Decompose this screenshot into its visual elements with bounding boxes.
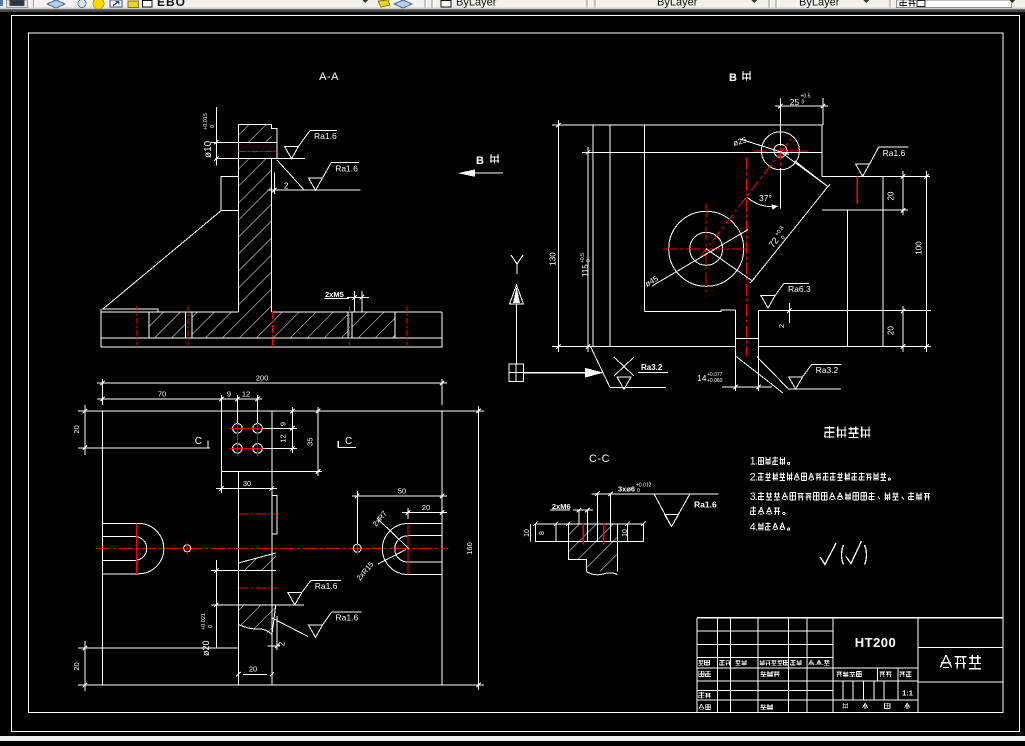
C-C M6 red holes <box>582 522 584 544</box>
svg-text:10: 10 <box>622 529 629 537</box>
linetype dropdown tick <box>751 0 757 3</box>
plan dim 20 slot <box>407 508 409 519</box>
B view dia45 label <box>652 230 748 286</box>
toolbar layers icon 2 <box>394 0 412 8</box>
svg-text:20: 20 <box>249 665 257 674</box>
B view red cross big circle <box>663 248 748 250</box>
svg-text:10: 10 <box>524 529 531 537</box>
plan dim 20 bottom column <box>243 673 267 675</box>
svg-text:+0.021: +0.021 <box>201 613 207 630</box>
title block outer lines <box>697 617 1003 619</box>
A-A column outline <box>239 125 277 312</box>
svg-text:C: C <box>345 436 352 447</box>
tech req check marks <box>820 543 836 565</box>
svg-text:20: 20 <box>72 662 81 670</box>
B view step dim 2 <box>788 303 790 323</box>
plan dims 70 9 12 top <box>220 395 222 411</box>
B view dim 115 <box>582 151 610 153</box>
layer color swatch <box>143 1 153 8</box>
toolbar separator 1 <box>33 0 35 8</box>
svg-text:.: . <box>755 456 758 468</box>
svg-text:Ra1.6: Ra1.6 <box>694 500 717 510</box>
B view dim 20 block <box>883 175 908 177</box>
C-C step wavy bottom <box>587 572 618 575</box>
A-A gusset diagonal <box>103 211 221 309</box>
svg-text:160: 160 <box>465 542 474 555</box>
B view dim 72 extension from small circle <box>780 151 828 186</box>
toolbar icon yellow fragment <box>378 0 390 7</box>
layer name text <box>157 0 186 9</box>
svg-text:70: 70 <box>158 390 166 399</box>
plan pad holes <box>233 424 243 434</box>
svg-text:B: B <box>476 155 484 167</box>
plan right slot inner arc <box>395 536 408 562</box>
svg-text:Ra1.6: Ra1.6 <box>314 131 337 141</box>
svg-text:Ra3.2: Ra3.2 <box>816 365 839 375</box>
svg-text:+0.060: +0.060 <box>707 378 723 384</box>
svg-text:2xM5: 2xM5 <box>325 290 344 299</box>
B view chute red centerline <box>745 157 747 356</box>
plan left locator dot <box>184 545 191 552</box>
svg-text:Ra3.2: Ra3.2 <box>641 363 663 372</box>
title block left grid rows <box>697 630 833 632</box>
svg-text:ByLayer: ByLayer <box>799 0 840 9</box>
title block header row labels <box>699 660 710 665</box>
lineweight dropdown tick <box>863 0 869 3</box>
svg-text:50: 50 <box>398 486 406 495</box>
svg-text:2: 2 <box>777 324 786 328</box>
plan dim 20 top-left <box>78 410 103 412</box>
B view dim 72 text <box>767 225 791 251</box>
svg-text:EBO: EBO <box>157 0 186 9</box>
A-A dim dia10 vertical <box>215 107 217 166</box>
svg-text:.: . <box>814 659 816 667</box>
A-A column hatch body <box>239 159 272 338</box>
B view Ra1.6 block <box>856 164 870 176</box>
B view red cross small circle <box>754 150 809 152</box>
plan dim 9 and 12 right <box>291 407 293 453</box>
A-A hole band lines <box>239 141 277 143</box>
B view dim 72 line <box>752 187 828 281</box>
B view chamfer edge diagonal <box>795 161 828 187</box>
A-A base lip <box>102 309 158 312</box>
title block middle section lines <box>833 667 918 669</box>
color ByLayer swatch <box>441 1 451 8</box>
A-A base outline <box>101 309 442 347</box>
svg-text:1:1: 1:1 <box>902 689 913 698</box>
svg-text:.: . <box>755 521 758 533</box>
UCS icon Y label <box>511 255 523 274</box>
plan left slot outer arc <box>139 523 164 573</box>
svg-text:.: . <box>755 491 758 503</box>
toolbar sun icon <box>93 0 104 9</box>
toolbar separator 2 <box>424 0 426 8</box>
plan chamfer dim 2 <box>276 616 278 650</box>
svg-text:9: 9 <box>227 390 231 399</box>
svg-text:0: 0 <box>210 125 216 128</box>
plan main red centerline <box>96 547 448 549</box>
plan pad outline <box>221 411 272 472</box>
tech req line 2 <box>750 472 891 484</box>
plan Ra1.6 lower <box>272 618 308 637</box>
plan column edges <box>237 472 239 686</box>
svg-text:HT200: HT200 <box>855 635 897 650</box>
plan column boss <box>272 496 277 534</box>
svg-text:2: 2 <box>278 641 287 646</box>
tech req line 4 <box>750 507 785 515</box>
toolbar separator 4 <box>768 0 770 8</box>
B view dim 100 <box>926 171 928 352</box>
svg-text:14: 14 <box>697 373 707 383</box>
plan Ra1.6 upper <box>276 604 304 606</box>
plan right slot outer arc <box>382 524 408 575</box>
A-A hole centerline red <box>239 150 277 152</box>
toolbar padlock icon <box>128 1 139 8</box>
B view chute step <box>736 337 759 339</box>
UCS icon X arrow <box>524 372 586 374</box>
svg-text:.: . <box>822 659 824 667</box>
toolbar layers icon <box>47 0 65 8</box>
C-C overall Ra1.6 mark <box>648 493 719 495</box>
plan dim 35 <box>317 407 319 476</box>
B view chute walls <box>735 310 737 385</box>
C-C strip dividers <box>555 524 557 542</box>
B view Ra3.2 right <box>757 357 788 389</box>
svg-text:20: 20 <box>887 326 896 335</box>
title block part name 夹具体 <box>940 655 981 669</box>
plan pad holes red crosses <box>229 427 245 429</box>
title block stage labels <box>837 671 862 677</box>
toolbar separator 5 <box>889 0 891 8</box>
plan dim 30 <box>220 472 222 494</box>
A-A surface finish Ra1.6 top <box>285 146 299 158</box>
B view dim 25 top <box>779 98 781 146</box>
svg-text:30: 30 <box>243 479 251 488</box>
B view red diagonal centerline <box>700 139 791 257</box>
title block left grid columns <box>717 618 719 713</box>
B view bottom right edge <box>759 346 931 348</box>
plan dim 160 <box>442 410 484 412</box>
C-C strip hatch <box>568 524 617 542</box>
svg-text:12: 12 <box>242 390 250 399</box>
plan hole band red dash <box>239 587 277 589</box>
svg-text:A-A: A-A <box>319 71 339 83</box>
plan dim 20 bottom-left <box>78 647 238 649</box>
B view big circle boss <box>669 211 744 286</box>
svg-text:0: 0 <box>208 625 214 628</box>
title block right section lines <box>918 647 1003 649</box>
title block sheet labels <box>843 703 849 709</box>
toolbar separator 3 <box>586 0 588 8</box>
plan dim 50 <box>356 491 358 544</box>
plan hole extension lines <box>263 427 297 429</box>
svg-text:200: 200 <box>256 373 269 382</box>
plan red dash upper <box>239 513 277 515</box>
B view inner top line <box>588 151 822 153</box>
B view inner bottom lines <box>645 310 736 312</box>
svg-text:2xM6: 2xM6 <box>552 502 571 511</box>
svg-text:9: 9 <box>279 422 288 426</box>
B view angle 37 <box>779 168 781 208</box>
plan left slot inner arc <box>136 537 146 561</box>
tech req line 1 <box>750 456 790 468</box>
svg-text:ByLayer: ByLayer <box>657 0 698 9</box>
A-A column hatch top cap <box>239 125 272 143</box>
B view dim 14 bottom <box>735 385 737 391</box>
B view right block <box>822 176 930 346</box>
plan right locator dot <box>353 544 361 552</box>
svg-text:130: 130 <box>549 252 558 266</box>
svg-text:20: 20 <box>422 503 430 512</box>
title block row labels <box>699 671 711 677</box>
B view Ra3.2 left with cross <box>591 347 611 388</box>
svg-text:Ra1.6: Ra1.6 <box>335 163 358 173</box>
plotstyle dropdown tick <box>1009 0 1015 3</box>
toolbar page-arrow icon <box>110 0 122 7</box>
plan left slot red centerline <box>136 523 138 573</box>
plan section C mark left <box>78 447 210 449</box>
plan right slot lips <box>408 523 442 525</box>
layer dropdown tick <box>362 0 368 3</box>
svg-text:20: 20 <box>887 191 896 200</box>
svg-text:35: 35 <box>306 438 315 446</box>
svg-text:0: 0 <box>586 259 592 262</box>
svg-text:0: 0 <box>802 100 805 106</box>
svg-text:0: 0 <box>637 488 640 494</box>
UCS icon Y arrow <box>510 285 524 304</box>
A-A base hole verticals <box>148 312 150 338</box>
B view dia25 label <box>740 139 789 155</box>
plan right slot red centerline <box>407 524 409 575</box>
plan dim 200 <box>102 379 104 405</box>
svg-text:2: 2 <box>284 182 289 191</box>
svg-text:B: B <box>729 72 737 84</box>
svg-text:3xø6: 3xø6 <box>618 485 635 494</box>
plan section C mark right <box>337 441 339 447</box>
tech req line 5 <box>750 521 790 533</box>
svg-text:100: 100 <box>915 241 924 255</box>
svg-text:25: 25 <box>790 97 800 107</box>
C-C strip outline <box>536 524 644 542</box>
svg-text:Ra6.3: Ra6.3 <box>788 284 811 294</box>
A-A base red centerlines <box>136 306 138 345</box>
svg-text:8: 8 <box>539 531 546 535</box>
B view small circle boss <box>761 132 799 170</box>
svg-text:115: 115 <box>581 264 590 277</box>
A-A surface finish Ra1.6 mid <box>277 160 304 190</box>
C-C dim 3xdia6 <box>596 494 598 542</box>
B view dim 130 <box>552 124 593 126</box>
svg-text:ByLayer: ByLayer <box>456 0 497 9</box>
B view block red centerline <box>856 176 858 204</box>
toolbar strip <box>0 0 1025 8</box>
tech requirements heading <box>824 426 870 438</box>
svg-text:Ra1.6: Ra1.6 <box>315 581 338 591</box>
svg-text:C: C <box>195 436 202 447</box>
svg-text:Ra1.6: Ra1.6 <box>336 613 359 623</box>
plan hatch lower <box>238 604 275 606</box>
plotstyle combo box <box>897 0 1012 8</box>
svg-text:20: 20 <box>72 425 81 433</box>
svg-text:37°: 37° <box>759 193 772 203</box>
svg-text:.: . <box>755 472 758 484</box>
svg-text:ø10: ø10 <box>203 140 214 158</box>
svg-text:Ra1.6: Ra1.6 <box>883 148 906 158</box>
toolbar bulb icon <box>78 0 86 8</box>
tech req line 3 <box>750 491 930 503</box>
UCS icon box <box>509 364 524 382</box>
status bar strip <box>0 736 1025 741</box>
B view chute diagonals <box>736 356 784 393</box>
svg-text:+0.015: +0.015 <box>203 113 209 130</box>
C-C step block 2 hatch <box>587 559 618 571</box>
svg-text:C-C: C-C <box>589 453 610 465</box>
B view Ra6.3 <box>761 296 775 308</box>
A-A left boss <box>221 177 239 211</box>
B view plate outline <box>593 125 822 346</box>
plan view plate rect <box>103 411 443 685</box>
toolbar icon monitor-button <box>7 0 28 8</box>
A-A base hatch <box>149 312 395 338</box>
plan left slot lips <box>103 522 139 524</box>
A-A chamfer dim 2 <box>273 172 275 194</box>
plan dim dia20 <box>215 560 217 648</box>
B view dim 20 bottom <box>902 306 904 352</box>
plan hatch upper <box>238 553 275 571</box>
svg-text:12: 12 <box>279 434 288 442</box>
C-C step block 1 <box>568 542 617 572</box>
